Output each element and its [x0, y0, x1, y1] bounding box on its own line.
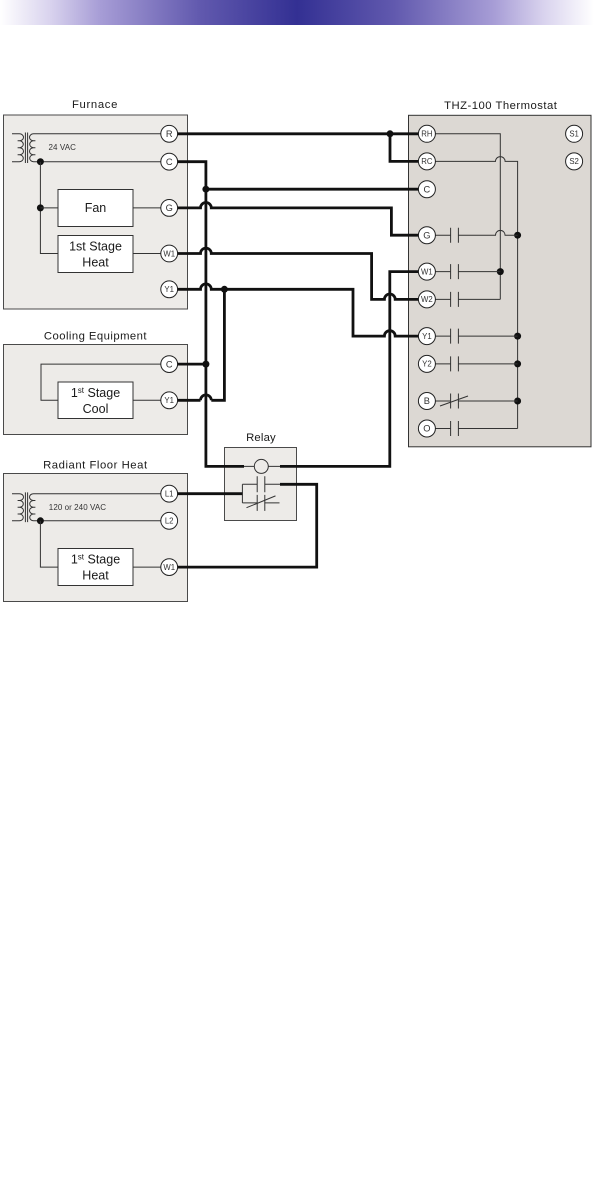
- wire coil leads: [242, 465, 280, 467]
- wire Y2 contact row: [435, 363, 517, 365]
- svg-text:W1: W1: [421, 267, 433, 276]
- terminal L2 (radiant): [161, 512, 178, 529]
- wire C to thermostat C: [206, 188, 419, 191]
- svg-text:C: C: [166, 157, 173, 167]
- terminal B: [418, 393, 435, 410]
- wire W2 contact row: [435, 298, 500, 300]
- terminal O: [418, 420, 435, 437]
- svg-text:Cooling Equipment: Cooling Equipment: [44, 330, 148, 342]
- radiant 1st stage heat block: [58, 549, 133, 586]
- svg-text:THZ-100 Thermostat: THZ-100 Thermostat: [444, 100, 558, 112]
- svg-text:W2: W2: [421, 295, 433, 304]
- wire contact common bracket: [241, 484, 243, 503]
- wire W1 contact row: [435, 271, 500, 273]
- svg-text:O: O: [423, 424, 430, 434]
- wire transformer to C: [34, 161, 161, 163]
- transformer T2 (120/240 VAC): [12, 492, 35, 522]
- terminal W1 (thermostat): [418, 263, 435, 280]
- thermostat box: [409, 115, 592, 447]
- cooling 1st stage cool block: [58, 382, 133, 419]
- svg-text:Y1: Y1: [164, 285, 174, 294]
- wire C bus (furnace C down to relay coil): [178, 162, 244, 467]
- terminal L1 (radiant): [161, 485, 178, 502]
- terminal C (furnace): [161, 153, 178, 170]
- wire common to heat block: [40, 521, 58, 567]
- terminal W1 (radiant): [161, 559, 178, 576]
- node: transformer common junction: [37, 158, 44, 165]
- node RC-Y1 junction: [514, 333, 521, 340]
- wire L1 to relay contact: [178, 492, 243, 495]
- terminal G (thermostat): [418, 227, 435, 244]
- node: radiant transformer junction: [37, 517, 44, 524]
- relay box: [225, 448, 297, 521]
- node RH-W1 junction: [497, 268, 504, 275]
- svg-text:24 VAC: 24 VAC: [49, 143, 77, 152]
- node Y1 branch junction: [221, 286, 228, 293]
- svg-text:B: B: [424, 396, 430, 406]
- node C-cooling junction: [202, 361, 209, 368]
- node C-thermostat junction: [202, 186, 209, 193]
- terminal Y1 (thermostat): [418, 328, 435, 345]
- wire relay contact to radiant W1: [178, 484, 317, 567]
- header gradient banner: [0, 0, 594, 25]
- terminal S1: [566, 125, 583, 142]
- contact W1: [451, 264, 459, 279]
- terminal R (furnace): [161, 125, 178, 142]
- relay NC contact: [242, 495, 279, 511]
- terminal Y2 (thermostat): [418, 355, 435, 372]
- wire O contact row: [435, 428, 517, 430]
- wire G to thermostat G: [178, 203, 419, 236]
- terminal RC: [418, 153, 435, 170]
- fan block: [58, 190, 133, 227]
- svg-text:Relay: Relay: [246, 432, 276, 444]
- wire Fan to G: [133, 207, 161, 209]
- svg-text:120 or 240 VAC: 120 or 240 VAC: [49, 503, 106, 512]
- svg-text:RH: RH: [421, 130, 432, 139]
- svg-text:G: G: [423, 230, 430, 240]
- svg-text:G: G: [166, 203, 173, 213]
- wire RC net: [435, 157, 517, 429]
- wire transformer to L1: [34, 493, 161, 495]
- svg-text:Heat: Heat: [82, 569, 109, 583]
- svg-text:L1: L1: [165, 490, 174, 499]
- wire RH net: [435, 134, 500, 300]
- wire C to cool block: [41, 364, 161, 400]
- svg-text:Y1: Y1: [164, 396, 174, 405]
- wire transformer to R: [34, 133, 161, 135]
- contact G: [451, 228, 459, 243]
- wire heat block to W1: [133, 566, 161, 568]
- contact W2: [451, 292, 459, 307]
- contact Y1: [451, 329, 459, 344]
- wire cool block to Y1: [133, 399, 161, 401]
- node RC-G junction: [514, 232, 521, 239]
- svg-text:S2: S2: [569, 157, 579, 166]
- contact Y2: [451, 356, 459, 371]
- svg-text:Y1: Y1: [422, 332, 432, 341]
- node: fan branch junction: [37, 204, 44, 211]
- wire R branch to RC: [390, 134, 418, 162]
- wire furnace Y1 to thermostat Y1: [178, 284, 419, 336]
- node R-RC junction: [387, 130, 394, 137]
- wire thermostat W1 to relay coil: [280, 272, 418, 467]
- node RC-B junction: [514, 398, 521, 405]
- wire heat to W1: [133, 253, 161, 255]
- wire common vertical: [40, 162, 58, 254]
- svg-text:Fan: Fan: [85, 201, 107, 215]
- terminal C (thermostat): [418, 181, 435, 198]
- svg-text:W1: W1: [163, 563, 175, 572]
- svg-text:S1: S1: [569, 130, 579, 139]
- svg-text:1st Stage: 1st Stage: [69, 239, 122, 253]
- svg-text:R: R: [166, 129, 173, 139]
- cooling equipment box: [4, 345, 188, 435]
- svg-text:Radiant Floor Heat: Radiant Floor Heat: [43, 459, 148, 471]
- svg-text:W1: W1: [163, 249, 175, 258]
- terminal W1 (furnace): [161, 245, 178, 262]
- svg-text:C: C: [166, 359, 173, 369]
- wire transformer to L2: [34, 520, 161, 522]
- terminal G (furnace): [161, 200, 178, 217]
- terminal W2 (thermostat): [418, 291, 435, 308]
- node RC-Y2 junction: [514, 360, 521, 367]
- svg-text:RC: RC: [421, 157, 433, 166]
- svg-text:C: C: [424, 184, 431, 194]
- wire B contact row: [435, 400, 517, 402]
- svg-text:L2: L2: [165, 517, 174, 526]
- contact B slash: [440, 396, 468, 406]
- wire cooling C to C bus: [178, 363, 206, 366]
- terminal RH: [418, 125, 435, 142]
- terminal Y1 (furnace): [161, 281, 178, 298]
- svg-text:Y2: Y2: [422, 360, 432, 369]
- terminal Y1 (cooling): [161, 392, 178, 409]
- contact B (NC): [451, 394, 459, 409]
- radiant floor heat box: [4, 474, 188, 602]
- relay coil K1: [254, 459, 268, 473]
- wire Y1 branch to cooling Y1: [178, 289, 225, 400]
- transformer T1 (24 VAC): [12, 133, 35, 164]
- wire to Fan: [40, 207, 58, 209]
- terminal C (cooling): [161, 356, 178, 373]
- wire R to RH: [178, 132, 419, 135]
- contact O: [451, 421, 459, 436]
- svg-text:Heat: Heat: [82, 255, 109, 269]
- furnace box: [4, 115, 188, 309]
- wire Y1 contact row: [435, 335, 517, 337]
- svg-text:Furnace: Furnace: [72, 99, 117, 111]
- svg-text:Cool: Cool: [83, 402, 109, 416]
- wire furnace W1 to thermostat W2: [178, 248, 419, 299]
- wire G contact row: [435, 230, 517, 235]
- furnace 1st stage heat block: [58, 236, 133, 273]
- terminal S2: [566, 153, 583, 170]
- relay NO contact: [242, 476, 280, 492]
